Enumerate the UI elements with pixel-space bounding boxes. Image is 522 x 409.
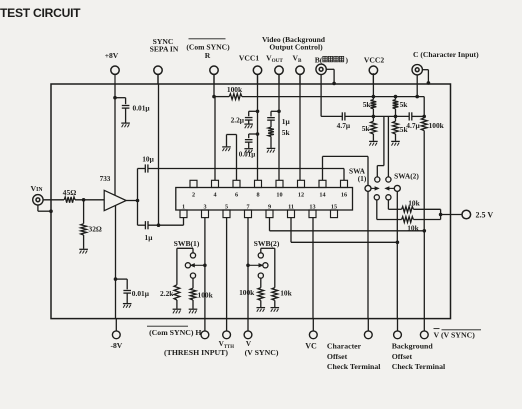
svg-text:Offset: Offset bbox=[327, 352, 348, 361]
svg-text:(Com SYNC) H: (Com SYNC) H bbox=[149, 328, 201, 337]
svg-text:10: 10 bbox=[276, 192, 282, 199]
svg-text:4.7μ: 4.7μ bbox=[337, 121, 351, 130]
svg-text:(V SYNC): (V SYNC) bbox=[245, 348, 279, 357]
svg-text:Output Control): Output Control) bbox=[269, 42, 323, 51]
svg-text:SWB(1): SWB(1) bbox=[174, 239, 200, 248]
svg-text:45Ω: 45Ω bbox=[63, 188, 77, 197]
svg-text:SWB(2): SWB(2) bbox=[254, 239, 280, 248]
svg-text:V: V bbox=[246, 340, 252, 348]
svg-text:VCC1: VCC1 bbox=[239, 53, 259, 62]
svg-text:11: 11 bbox=[288, 203, 294, 210]
svg-text:16: 16 bbox=[341, 192, 347, 199]
svg-text:4: 4 bbox=[213, 192, 216, 199]
svg-text:15: 15 bbox=[331, 203, 337, 210]
svg-text:100k: 100k bbox=[227, 85, 243, 94]
svg-text:733: 733 bbox=[100, 175, 111, 183]
svg-text:10k: 10k bbox=[280, 288, 292, 297]
svg-text:9: 9 bbox=[268, 203, 271, 210]
svg-text:Offset: Offset bbox=[392, 352, 413, 361]
svg-text:8: 8 bbox=[256, 192, 259, 199]
svg-text:SEPA IN: SEPA IN bbox=[150, 44, 179, 53]
svg-text:1μ: 1μ bbox=[145, 233, 154, 242]
svg-text:SWA(2): SWA(2) bbox=[394, 171, 419, 180]
svg-text:100k: 100k bbox=[429, 121, 445, 130]
svg-text:100k: 100k bbox=[239, 288, 255, 297]
svg-text:1μ: 1μ bbox=[282, 117, 291, 126]
svg-text:4.7μ: 4.7μ bbox=[406, 121, 420, 130]
svg-text:(Com SYNC): (Com SYNC) bbox=[186, 42, 230, 51]
svg-text:5k: 5k bbox=[282, 128, 291, 137]
svg-text:Check Terminal: Check Terminal bbox=[392, 362, 446, 371]
svg-text:-8V: -8V bbox=[110, 341, 122, 350]
svg-text:13: 13 bbox=[309, 203, 315, 210]
svg-text:2: 2 bbox=[192, 192, 195, 199]
svg-text:2.5 V: 2.5 V bbox=[476, 210, 494, 219]
svg-text:Character: Character bbox=[327, 341, 362, 350]
svg-text:10μ: 10μ bbox=[142, 154, 154, 163]
svg-text:0.01μ: 0.01μ bbox=[132, 289, 150, 298]
svg-text:+8V: +8V bbox=[105, 51, 119, 60]
svg-text:(THRESH INPUT): (THRESH INPUT) bbox=[164, 348, 228, 357]
svg-text:5k: 5k bbox=[400, 100, 409, 109]
svg-text:7: 7 bbox=[246, 203, 249, 210]
svg-text:12: 12 bbox=[298, 192, 304, 199]
svg-text:VCC2: VCC2 bbox=[364, 55, 384, 64]
svg-text:V (V SYNC): V (V SYNC) bbox=[434, 330, 476, 339]
svg-text:0.01μ: 0.01μ bbox=[133, 103, 151, 112]
svg-text:5: 5 bbox=[225, 203, 228, 210]
svg-text:6: 6 bbox=[235, 192, 238, 199]
svg-text:10k: 10k bbox=[408, 198, 420, 207]
svg-text:100k: 100k bbox=[198, 290, 214, 299]
svg-text:Check Terminal: Check Terminal bbox=[327, 362, 381, 371]
svg-text:C (Character Input): C (Character Input) bbox=[413, 50, 479, 59]
svg-text:5k: 5k bbox=[362, 124, 371, 133]
svg-text:VC: VC bbox=[305, 342, 317, 351]
svg-text:(1): (1) bbox=[358, 174, 367, 183]
svg-text:B(: B( bbox=[315, 55, 323, 64]
svg-text:10k: 10k bbox=[407, 223, 419, 232]
svg-text:0.01μ: 0.01μ bbox=[239, 150, 255, 158]
svg-text:32Ω: 32Ω bbox=[89, 225, 102, 234]
svg-text:R: R bbox=[205, 51, 211, 60]
svg-text:3: 3 bbox=[203, 203, 206, 210]
svg-text:2.2k: 2.2k bbox=[160, 289, 174, 298]
svg-text:2.2μ: 2.2μ bbox=[231, 115, 245, 124]
svg-text:Background: Background bbox=[392, 341, 434, 350]
svg-text:14: 14 bbox=[319, 192, 325, 199]
svg-text:1: 1 bbox=[182, 203, 185, 210]
svg-text:TEST CIRCUIT: TEST CIRCUIT bbox=[0, 6, 81, 20]
svg-text:5k: 5k bbox=[363, 100, 372, 109]
